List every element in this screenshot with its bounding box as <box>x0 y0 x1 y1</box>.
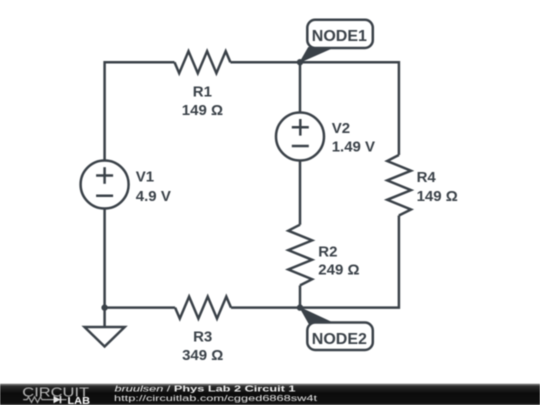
svg-text:R1: R1 <box>193 84 212 101</box>
resistor R2 <box>288 225 312 286</box>
wire R1 to NODE1 junction to right corner <box>230 62 399 155</box>
V1 plus sign <box>96 174 113 177</box>
logo diode glyph <box>46 399 66 401</box>
svg-text:R4: R4 <box>417 169 437 186</box>
node NODE2 junction dot <box>297 304 303 310</box>
svg-text:NODE2: NODE2 <box>312 331 367 348</box>
svg-text:V1: V1 <box>136 169 154 186</box>
svg-text:NODE1: NODE1 <box>312 28 367 45</box>
V2 minus sign <box>292 145 309 148</box>
node NODE1 junction dot <box>297 59 303 65</box>
svg-text:149 Ω: 149 Ω <box>417 188 458 205</box>
wire V2 to R2 <box>299 161 302 225</box>
logo resistor glyph <box>23 397 46 403</box>
svg-text:bruulsen / Phys Lab 2 Circuit: bruulsen / Phys Lab 2 Circuit 1 <box>115 385 297 394</box>
wire R2 to NODE2 junction <box>299 285 302 307</box>
resistor R4 <box>387 155 411 216</box>
svg-text:R3: R3 <box>193 329 212 346</box>
NODE1 callout pointer <box>300 48 333 63</box>
wire top from left corner to R1 <box>105 62 175 161</box>
wire V1 bottom to ground junction <box>103 209 106 308</box>
ground junction dot <box>101 304 107 310</box>
ground <box>103 308 106 327</box>
svg-text:http://circuitlab.com/cgged686: http://circuitlab.com/cgged6868sw4t <box>114 394 318 403</box>
V1 minus sign <box>96 195 113 198</box>
svg-text:149 Ω: 149 Ω <box>182 102 223 119</box>
svg-text:V2: V2 <box>332 120 350 137</box>
NODE1 callout box <box>307 20 373 48</box>
svg-text:4.9 V: 4.9 V <box>136 188 171 205</box>
voltage source V1 <box>81 161 129 209</box>
resistor R1 <box>175 51 231 73</box>
wire R4 to bottom right corner to NODE2 <box>300 216 399 308</box>
svg-text:LAB: LAB <box>68 396 91 405</box>
svg-text:R2: R2 <box>318 243 337 260</box>
wire NODE2 to R3 <box>231 306 300 309</box>
svg-text:249 Ω: 249 Ω <box>318 261 359 278</box>
NODE2 callout pointer <box>300 308 334 324</box>
V2 plus sign <box>292 126 309 129</box>
NODE2 callout box <box>307 323 373 351</box>
svg-text:1.49 V: 1.49 V <box>332 138 375 155</box>
resistor R3 <box>175 297 231 319</box>
svg-text:349 Ω: 349 Ω <box>182 347 223 364</box>
wire NODE1 junction down to V2 <box>299 62 302 112</box>
wire R3 to ground junction <box>105 306 176 309</box>
voltage source V2 <box>276 113 324 161</box>
